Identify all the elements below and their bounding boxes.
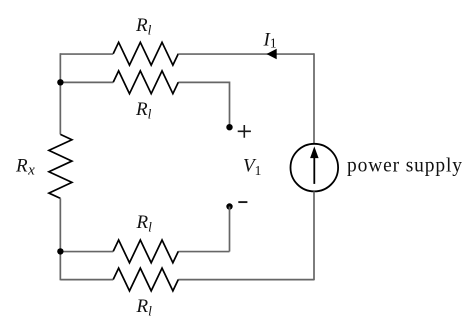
svg-text:power supply: power supply (347, 155, 463, 176)
junction dot at left lower node (57, 248, 63, 254)
resistor Rl fourth (zigzag on bottom wire) (113, 268, 178, 291)
wire second horizontal (to + node) (60, 82, 229, 127)
wire right vertical lower segment (313, 191, 315, 280)
resistor Rx (vertical zigzag on left branch) (49, 134, 72, 198)
current source U1 circle (power supply) (291, 144, 339, 192)
wire right vertical upper segment (313, 53, 315, 144)
label minus sign (238, 201, 247, 203)
wire top horizontal left segment (60, 53, 113, 55)
junction dot at left upper node (57, 79, 63, 85)
wire top horizontal right segment (178, 53, 314, 55)
wire left vertical upper segment (59, 53, 61, 134)
current source arrow inside circle (313, 157, 315, 184)
wire lower-upper horizontal (60, 251, 229, 253)
resistor Rl top (zigzag on top wire) (113, 42, 178, 65)
node + (plus terminal dot) (226, 124, 232, 130)
resistor Rl third (zigzag on lower-upper wire) (113, 240, 178, 263)
resistor Rl second (zigzag on second wire) (113, 71, 178, 94)
node minus terminal dot (226, 203, 232, 209)
wire left vertical lower segment (59, 198, 61, 280)
wire bottom horizontal (60, 279, 314, 281)
current arrow I1 (arrowhead on top wire pointing left) (267, 49, 276, 59)
label plus sign (238, 125, 251, 138)
wire from minus node down to lower-upper wire (229, 207, 231, 252)
